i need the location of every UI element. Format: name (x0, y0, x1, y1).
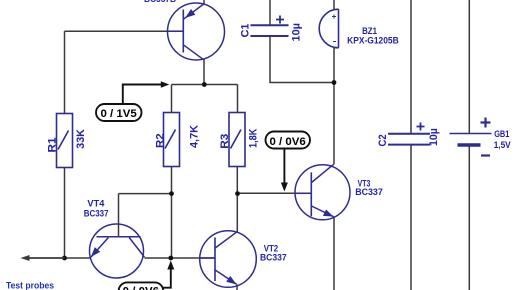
svg-text:4,7K: 4,7K (189, 125, 201, 148)
resistor R3 (229, 113, 245, 167)
svg-text:1,8K: 1,8K (247, 129, 259, 148)
wire BZ1 top (333, 0, 335, 10)
wire VT1 emitter top (203, 0, 205, 4)
node VT1 collector junction (202, 82, 207, 87)
svg-text:Test probes: Test probes (6, 279, 54, 290)
wire C2 rail bottom (410, 145, 412, 290)
resistor R2 (164, 113, 180, 167)
node R2 bottom junction (169, 191, 174, 196)
svg-text:R1: R1 (46, 138, 58, 153)
wire C1 top (269, 0, 271, 25)
wire bottom left (test probe) (25, 257, 90, 259)
wire GB1 rail bottom (468, 145, 470, 290)
wire C2 rail top (410, 0, 412, 134)
svg-text:33K: 33K (75, 129, 87, 149)
wire R2 bottom vertical (171, 167, 173, 259)
transistor VT2 (200, 231, 257, 288)
wire R1 bottom vertical (64, 168, 66, 259)
svg-text:10µ: 10µ (290, 23, 302, 42)
svg-text:BC337: BC337 (260, 253, 287, 263)
wire VT3 base horizontal (238, 192, 312, 194)
wire R3 top (237, 85, 239, 113)
wire VT4 collector to VT2 base (145, 257, 216, 259)
node bottom wire junction (168, 256, 173, 261)
svg-text:C1: C1 (239, 24, 251, 38)
svg-text:GB1: GB1 (494, 129, 509, 139)
wire VT2 emitter bottom (236, 284, 238, 290)
wire R1 top vertical (64, 31, 66, 113)
wire GB1 rail top (468, 0, 470, 134)
svg-text:1,5V: 1,5V (494, 140, 512, 150)
svg-text:0 / 0V6: 0 / 0V6 (270, 136, 306, 148)
wire R3 bottom to VT2 collector (236, 167, 238, 232)
probe bubble 0/0V6 (bottom) (119, 261, 175, 290)
battery GB1 (450, 118, 492, 156)
capacitor C1 (251, 16, 289, 37)
svg-text:KPX-G1205B: KPX-G1205B (347, 35, 399, 45)
svg-text:R2: R2 (154, 133, 166, 148)
node BZ1/C1 junction (332, 80, 337, 85)
probe bubble 0/0V6 (VT3 base) (266, 132, 311, 192)
wire VT1 base horizontal (65, 30, 185, 32)
svg-text:0 / 0V6: 0 / 0V6 (123, 286, 159, 290)
transistor VT3 (295, 164, 350, 220)
svg-text:VT4: VT4 (87, 199, 105, 209)
wire node horizontal R2-R3 (172, 84, 238, 86)
svg-text:C2: C2 (377, 134, 389, 146)
svg-text:10µ: 10µ (428, 128, 440, 146)
capacitor C2 (388, 123, 430, 145)
node R1 bottom junction (62, 256, 67, 261)
wire VT3 emitter bottom (333, 217, 335, 290)
svg-text:BC337: BC337 (355, 187, 383, 197)
wire C1 bottom L-shape (270, 37, 334, 83)
wire R2 top (171, 85, 173, 113)
svg-text:BC337: BC337 (84, 208, 109, 218)
buzzer BZ1 (319, 9, 338, 48)
wire VT1 collector vertical (203, 60, 205, 85)
svg-text:0 / 1V5: 0 / 1V5 (101, 108, 137, 120)
svg-text:BC557B: BC557B (144, 0, 176, 4)
wire VT4 base vertical (118, 194, 120, 237)
transistor VT1 (168, 3, 225, 60)
test probe arrow (21, 255, 65, 261)
transistor VT4 (90, 224, 145, 278)
wire BZ1 bottom to VT3 collector (333, 48, 335, 165)
wire VT4 base horizontal (119, 193, 172, 195)
node R3 bottom junction (235, 191, 240, 196)
svg-text:R3: R3 (219, 134, 231, 149)
probe bubble 0/1V5 (96, 81, 169, 121)
resistor R1 (57, 114, 73, 168)
